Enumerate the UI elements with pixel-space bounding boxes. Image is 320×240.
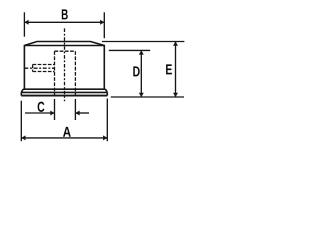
arrowhead E up (173, 42, 178, 46)
dim E dimension line (175, 42, 177, 98)
set screw recess left wall (dashed) (32, 65, 34, 72)
arrowhead E down (173, 93, 178, 97)
dim B right extension line (103, 12, 105, 38)
label E (166, 64, 172, 74)
dim C right extension line (74, 99, 76, 120)
dim B dimension line (24, 21, 104, 23)
dim D dimension line (140, 50, 142, 97)
set screw recess top (dashed) (33, 64, 55, 66)
dim C left extension line (54, 99, 56, 120)
flange right chamfer (106, 89, 108, 92)
dim C left tail with arrow (25, 112, 55, 114)
label C (38, 102, 45, 112)
knob body outline (24, 42, 104, 90)
dim C right tail with arrow (75, 112, 89, 114)
knob shoulder edge line (24, 45, 104, 47)
arrowhead A left (21, 135, 25, 140)
arrowhead C pointing right (50, 111, 54, 116)
dim D/E bottom extension line (111, 96, 184, 98)
flange right side (106, 92, 108, 95)
vertical centerline (dash-dot) (64, 28, 66, 101)
dim A dimension line (21, 137, 107, 139)
dim A left extension line (20, 101, 22, 142)
label B (62, 9, 68, 19)
dim D top extension line (109, 49, 150, 51)
arrowhead D down (139, 93, 144, 97)
arrowhead A right (103, 135, 107, 140)
flange bottom edge (21, 95, 107, 97)
arrowhead C pointing left (75, 111, 79, 116)
arrowhead B left (24, 20, 28, 25)
hidden shaft hole top (dashed) (55, 50, 76, 52)
arrowhead D up (139, 50, 144, 54)
hidden shaft hole right wall (dashed) (74, 51, 76, 95)
flange mid edge line (21, 91, 107, 93)
set screw recess bottom (dashed) (33, 71, 55, 73)
label A (63, 127, 71, 137)
hidden shaft hole left wall (dashed) (54, 51, 56, 95)
flange left chamfer (21, 89, 23, 92)
flange left side (20, 92, 22, 95)
dim B left extension line (23, 12, 25, 36)
flange top edge (23, 88, 105, 90)
set screw hole centerline (dash-dot) (24, 67, 54, 69)
dim E top extension line (102, 41, 184, 43)
label D (133, 66, 139, 76)
dim A right extension line (106, 99, 108, 142)
arrowhead B right (100, 20, 104, 25)
